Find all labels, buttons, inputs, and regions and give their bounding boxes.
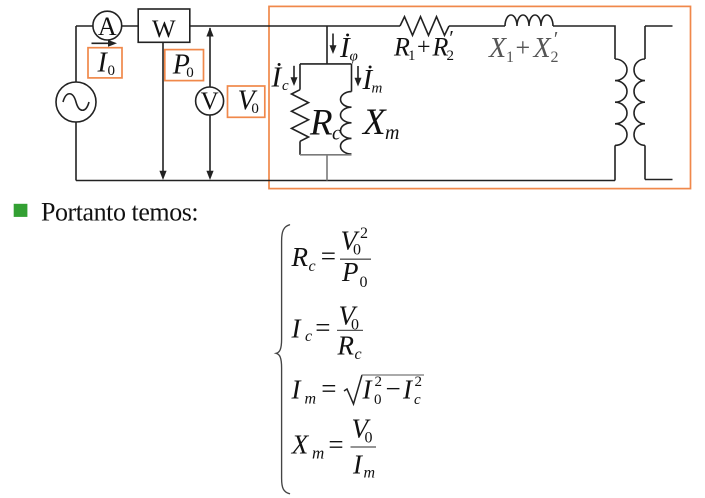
svg-text:0: 0	[360, 274, 368, 291]
svg-text:I: I	[362, 375, 374, 405]
svg-text:′: ′	[553, 27, 558, 51]
svg-text:=: =	[321, 374, 336, 404]
svg-text:0: 0	[186, 65, 194, 81]
svg-text:=: =	[321, 241, 336, 271]
svg-text:W: W	[152, 16, 176, 43]
svg-text:1: 1	[408, 48, 416, 64]
svg-text:′: ′	[448, 26, 453, 50]
svg-text:I: I	[352, 450, 364, 480]
svg-text:P: P	[341, 257, 359, 287]
svg-text:Portanto temos:: Portanto temos:	[41, 197, 198, 226]
svg-text:φ: φ	[350, 49, 358, 65]
svg-text:R: R	[309, 103, 333, 144]
svg-text:m: m	[364, 465, 376, 482]
svg-text:c: c	[355, 346, 362, 363]
svg-text:+: +	[417, 35, 431, 61]
svg-text:2: 2	[551, 49, 559, 66]
svg-text:m: m	[312, 444, 324, 463]
svg-text:I: I	[291, 375, 303, 405]
svg-text:A: A	[98, 12, 117, 41]
svg-text:R: R	[337, 331, 355, 361]
svg-text:m: m	[305, 391, 317, 408]
svg-text:=: =	[315, 312, 330, 342]
svg-text:X: X	[488, 33, 507, 64]
svg-text:c: c	[305, 328, 312, 345]
svg-text:c: c	[282, 78, 289, 94]
svg-text:0: 0	[251, 101, 259, 117]
svg-text:c: c	[309, 258, 316, 275]
svg-text:I: I	[402, 375, 414, 405]
svg-text:I: I	[291, 313, 303, 343]
svg-text:c: c	[414, 392, 421, 408]
svg-text:=: =	[328, 430, 343, 460]
svg-text:2: 2	[360, 225, 368, 242]
svg-text:V: V	[201, 88, 219, 115]
svg-text:0: 0	[108, 63, 116, 79]
svg-text:X: X	[533, 33, 552, 64]
svg-text:−: −	[386, 374, 401, 404]
svg-text:+: +	[516, 33, 531, 62]
svg-text:R: R	[291, 242, 309, 272]
svg-text:c: c	[332, 123, 341, 145]
svg-text:0: 0	[365, 430, 373, 447]
svg-text:m: m	[385, 122, 399, 144]
svg-text:2: 2	[447, 48, 455, 64]
svg-text:X: X	[361, 102, 387, 143]
svg-text:2: 2	[415, 374, 423, 390]
svg-text:0: 0	[353, 242, 361, 259]
svg-text:1: 1	[506, 49, 514, 66]
svg-text:0: 0	[374, 392, 382, 408]
svg-text:m: m	[372, 81, 383, 97]
svg-text:İ: İ	[271, 61, 283, 93]
svg-text:2: 2	[375, 374, 383, 390]
svg-text:X: X	[291, 430, 310, 460]
